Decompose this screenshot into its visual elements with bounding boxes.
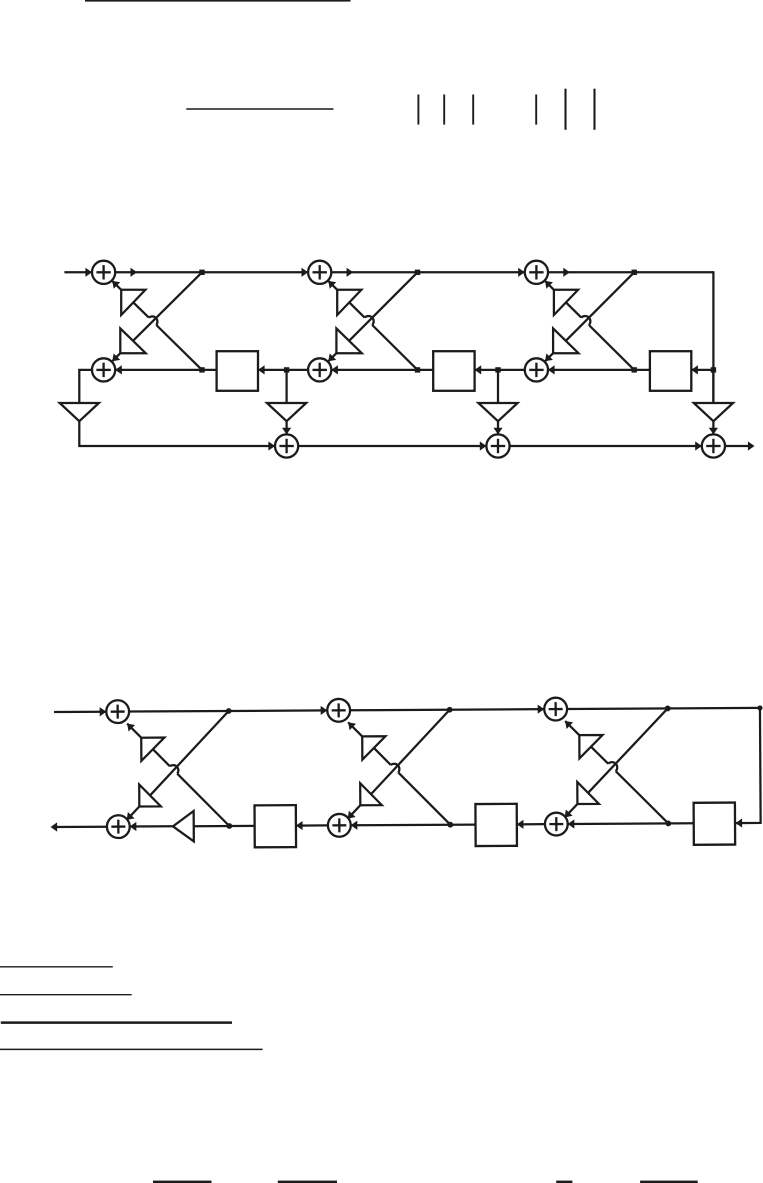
output adder O1 [275,434,298,457]
wire: bottom rail right node to delay box Z3 [691,369,713,371]
vertical bar fragment 1 [417,95,419,125]
wire: gain b2 output into bottom adder Q2 [348,805,361,818]
wire: top rail adder P3 to right corner [567,708,760,709]
arrowhead into adder A3 [518,268,525,277]
arrowhead into delay box Z1 [258,365,265,374]
wire: tap 1 into output adder [285,421,287,434]
wire: top rail adder P2 to adder P3 [350,709,544,710]
wire: gain a2 output into top adder P2 [348,722,362,736]
wire: delay box Z1 to bottom adder B1 [115,369,216,371]
delay box W2 (z^-1) [475,804,517,846]
gain triangle k3 (upper) [554,290,578,315]
arrowhead into output adder O1 [268,441,275,450]
wire: delay box Z2 to bottom adder B2 [331,369,433,371]
top adder P1 [106,700,129,723]
wire: cross branch from bottom node 2 up to gain k2 (with hop) [372,325,417,370]
node dot bottom 2 [447,822,453,828]
tap gain v3 triangle (pointing down) [694,403,733,421]
node square bottom 1 [199,367,204,372]
cut-off mark 3 at page bottom [556,1181,572,1183]
arrowhead into output adder O3 from tap [709,428,718,435]
top adder P2 [327,699,350,722]
gain triangle k2p (lower) [336,328,361,353]
arrowhead into top adder P1 from gain a1 [127,724,135,732]
wire: tap 3 into output adder [712,421,714,434]
arrowhead into bottom adder B3 from gain k3p [545,353,553,361]
wire: cross branch from top node 2 down to gain k2p [349,272,417,341]
wire: gain k2 output into top adder A2 [328,281,337,290]
arrowhead into delay box Z2 [475,365,482,374]
vertical bar fragment 6 [593,89,595,130]
wire: top rail from adder A2 to adder A3 [331,271,525,273]
arrowhead into delay box W3 [735,818,742,827]
gain triangle a2 (upper) [362,736,385,759]
wire: tap 3 vertical from bottom rail [712,370,714,403]
wire: right vertical feedback [734,708,760,823]
wire: tap 2 vertical from bottom rail [497,370,499,403]
arrowhead into output adder O2 from tap [493,428,502,435]
node square tap junction [284,367,289,372]
gain triangle b1 (lower) [139,784,161,806]
wire: delay box W3 to bottom adder Q3 [568,822,694,825]
node square tap junction [711,367,716,372]
wire: top rail adder P1 to adder P2 [129,710,327,711]
wire: delay box Z3 to bottom adder B3 [548,369,650,371]
wire: v0 down to output rail [78,421,80,446]
arrowhead into bottom adder Q3 [568,819,575,828]
wire: bottom adder B3 to delay box Z2 [475,369,525,371]
arrowhead output y[n] [748,441,755,450]
wire: bottom adder Q2 to delay box W1 [296,824,328,826]
gain triangle k2 (upper) [337,290,361,315]
delay box Z3 (z^-1) [650,351,691,391]
output adder O3 [702,434,725,457]
arrowhead into bottom adder B2 [331,365,338,374]
vertical bar fragment 2 [443,95,445,125]
arrowhead into bottom adder B1 [115,365,122,374]
tap gain v1 triangle (pointing down) [267,403,306,421]
node dot at top-right corner [757,705,762,710]
cut-off mark 2 at page bottom [278,1181,337,1183]
remnant underline strip top of page [85,0,351,2]
wire: gain k2p output into bottom adder B2 [328,353,336,361]
wire: output rail leftmost segment [78,445,275,447]
gain triangle b2 (lower) [360,783,382,805]
gain triangle a1 (upper) [141,738,164,761]
wire: cross branch from bottom node 3 up to gain k3 (with hop) [589,325,634,370]
wire: cross branch bottom node 3 up to gain a3 (with hop) [616,771,669,824]
arrowhead after adder A2 [347,268,354,277]
wire: output rail O1 to O2 [298,445,486,447]
arrowhead after adder A3 [563,268,570,277]
arrowhead into adder A2 [302,268,309,277]
gain triangle b3 (lower) [577,782,599,804]
arrowhead after adder A1 [131,268,138,277]
gain triangle a3 (upper) [579,735,602,758]
arrowhead into bottom adder B1 from gain k1p [112,353,120,361]
node square top 2 [415,270,420,275]
top adder A2 [308,261,331,284]
arrowhead into bottom adder Q2 [351,821,358,830]
wire: gain k3 output into top adder A3 [545,281,554,290]
wire: cross branch bottom node 2 up to gain a2 (with hop) [398,772,450,825]
wire: gain k1p output into bottom adder B1 [112,353,120,361]
cut-off mark 4 at page bottom [640,1181,698,1183]
wire: cross branch top node 1 down to gain b1 [150,711,230,795]
wire: right vertical feed down to delay line [712,271,714,403]
arrowhead into bottom adder B2 from gain k2p [328,353,336,361]
wire: gain k1 output into top adder A1 [112,281,121,290]
vertical bar fragment 5 [564,89,566,130]
node square top 3 [632,270,637,275]
bottom adder Q1 [107,815,130,838]
vertical bar fragment 3 [472,95,474,125]
node square bottom 3 [632,367,637,372]
node square tap junction [495,367,500,372]
tap gain v0 triangle (far left, pointing down) [60,403,99,421]
arrowhead into top adder P2 from gain a2 [348,722,356,730]
arrowhead into adder A1 [85,268,92,277]
gain triangle k1p (lower) [120,328,145,353]
arrowhead into top adder A3 from gain k3 [545,281,553,289]
arrowhead into bottom adder B3 [548,365,555,374]
arrowhead into top adder A1 from gain k1 [112,281,120,289]
arrowhead into delay box W2 [517,820,524,829]
arrowhead into delay box W1 [296,821,303,830]
wire: input x[n] to adder P1 [54,711,106,714]
delay box W1 (z^-1) [255,805,297,847]
node square top 1 [199,270,204,275]
wire: cross branch top node 2 down to gain b2 [371,710,451,794]
top adder P3 [544,698,567,721]
arrowhead into bottom adder Q1 [130,822,137,831]
node dot top 1 [226,708,232,714]
arrowhead into bottom adder Q1 from gain b1 [127,812,135,820]
bottom adder B3 [525,358,548,381]
wire: gain k3p output into bottom adder B3 [545,353,553,361]
delay box Z2 (z^-1) [433,351,474,391]
wire: input to first top adder [64,271,92,273]
arrowhead into output adder O1 from tap [282,428,291,435]
top adder A3 [525,261,548,284]
arrowhead into adder P2 [321,706,328,715]
arrowhead into bottom adder Q3 from gain b3 [565,810,573,818]
arrowhead into adder P3 [538,705,545,714]
wire: delay box W1 to gain triangle base [194,825,255,828]
wire: delay box W2 to bottom adder Q2 [351,823,476,826]
short rule fragment 1 [0,966,113,968]
wire: output arrow y[n] to the left [52,826,107,829]
node dot bottom 1 [226,823,232,829]
bottom adder B1 [92,358,115,381]
arrowhead into output adder O3 [695,441,702,450]
node dot top 2 [447,707,453,713]
bottom adder Q2 [328,814,351,837]
vertical bar fragment 4 [535,95,537,125]
wire: cross branch bottom node 1 up to gain a1 (with hop) [177,773,229,826]
delay box Z1 (z^-1) [217,351,258,391]
short rule fragment 2 [0,994,132,996]
wire: bottom adder B2 to delay box Z1 [258,369,308,371]
arrowhead into top adder A2 from gain k2 [328,281,336,289]
wire: gain b3 output into bottom adder Q3 [565,804,578,817]
wire: tap 2 into output adder [497,421,499,434]
wire: cross branch from top node 3 down to gain k3p [566,272,634,341]
wire: cross branch top node 3 down to gain b3 [588,708,669,792]
top adder A1 [92,261,115,284]
output adder O2 [486,434,509,457]
gain triangle k1 (upper) [121,290,145,315]
wire: cross branch from bottom node 1 up to gain k1 (with hop) [156,325,202,370]
wire: gain triangle to bottom adder Q1 [130,825,173,827]
wire: gain b1 output into bottom adder Q1 [127,807,140,820]
node dot bottom 3 [665,821,671,827]
cut-off mark 1 at page bottom [153,1181,212,1183]
arrowhead into adder P1 [100,707,107,716]
wire: bottom adder B1 left then down to tap gain v0 [79,370,92,403]
wire: final output arrow [725,445,753,447]
horizontal rule (formula fragment) [186,108,333,110]
wire: gain a1 output into top adder P1 [127,723,141,737]
rule fragment 4 [0,1048,263,1050]
wire: top rail from adder A1 to adder A2 [115,271,308,273]
node square bottom 2 [415,367,420,372]
arrowhead into bottom adder Q2 from gain b2 [348,811,356,819]
thick rule fragment 3 [1,1021,232,1024]
delay box W3 (z^-1) [694,803,736,845]
wire: tap 1 vertical from bottom rail [285,370,287,403]
node dot top 3 [665,706,671,712]
output gain triangle on bottom rail (pointing left) [173,811,194,842]
arrowhead output (left) [51,822,58,831]
wire: top rail from adder A3 to right corner [548,271,713,273]
bottom adder B2 [308,358,331,381]
wire: output rail O2 to O3 [510,445,702,447]
arrowhead into output adder O2 [480,441,487,450]
gain triangle k3p (lower) [553,328,578,353]
wire: gain a3 output into top adder P3 [565,721,579,735]
bottom adder Q3 [545,813,568,836]
wire: bottom adder Q3 to delay box W2 [517,823,545,825]
arrowhead into delay box Z3 [691,365,698,374]
arrowhead into top adder P3 from gain a3 [565,721,573,729]
wire: cross branch from top node 1 down to gain k1p [133,272,202,341]
tap gain v2 triangle (pointing down) [478,403,517,421]
